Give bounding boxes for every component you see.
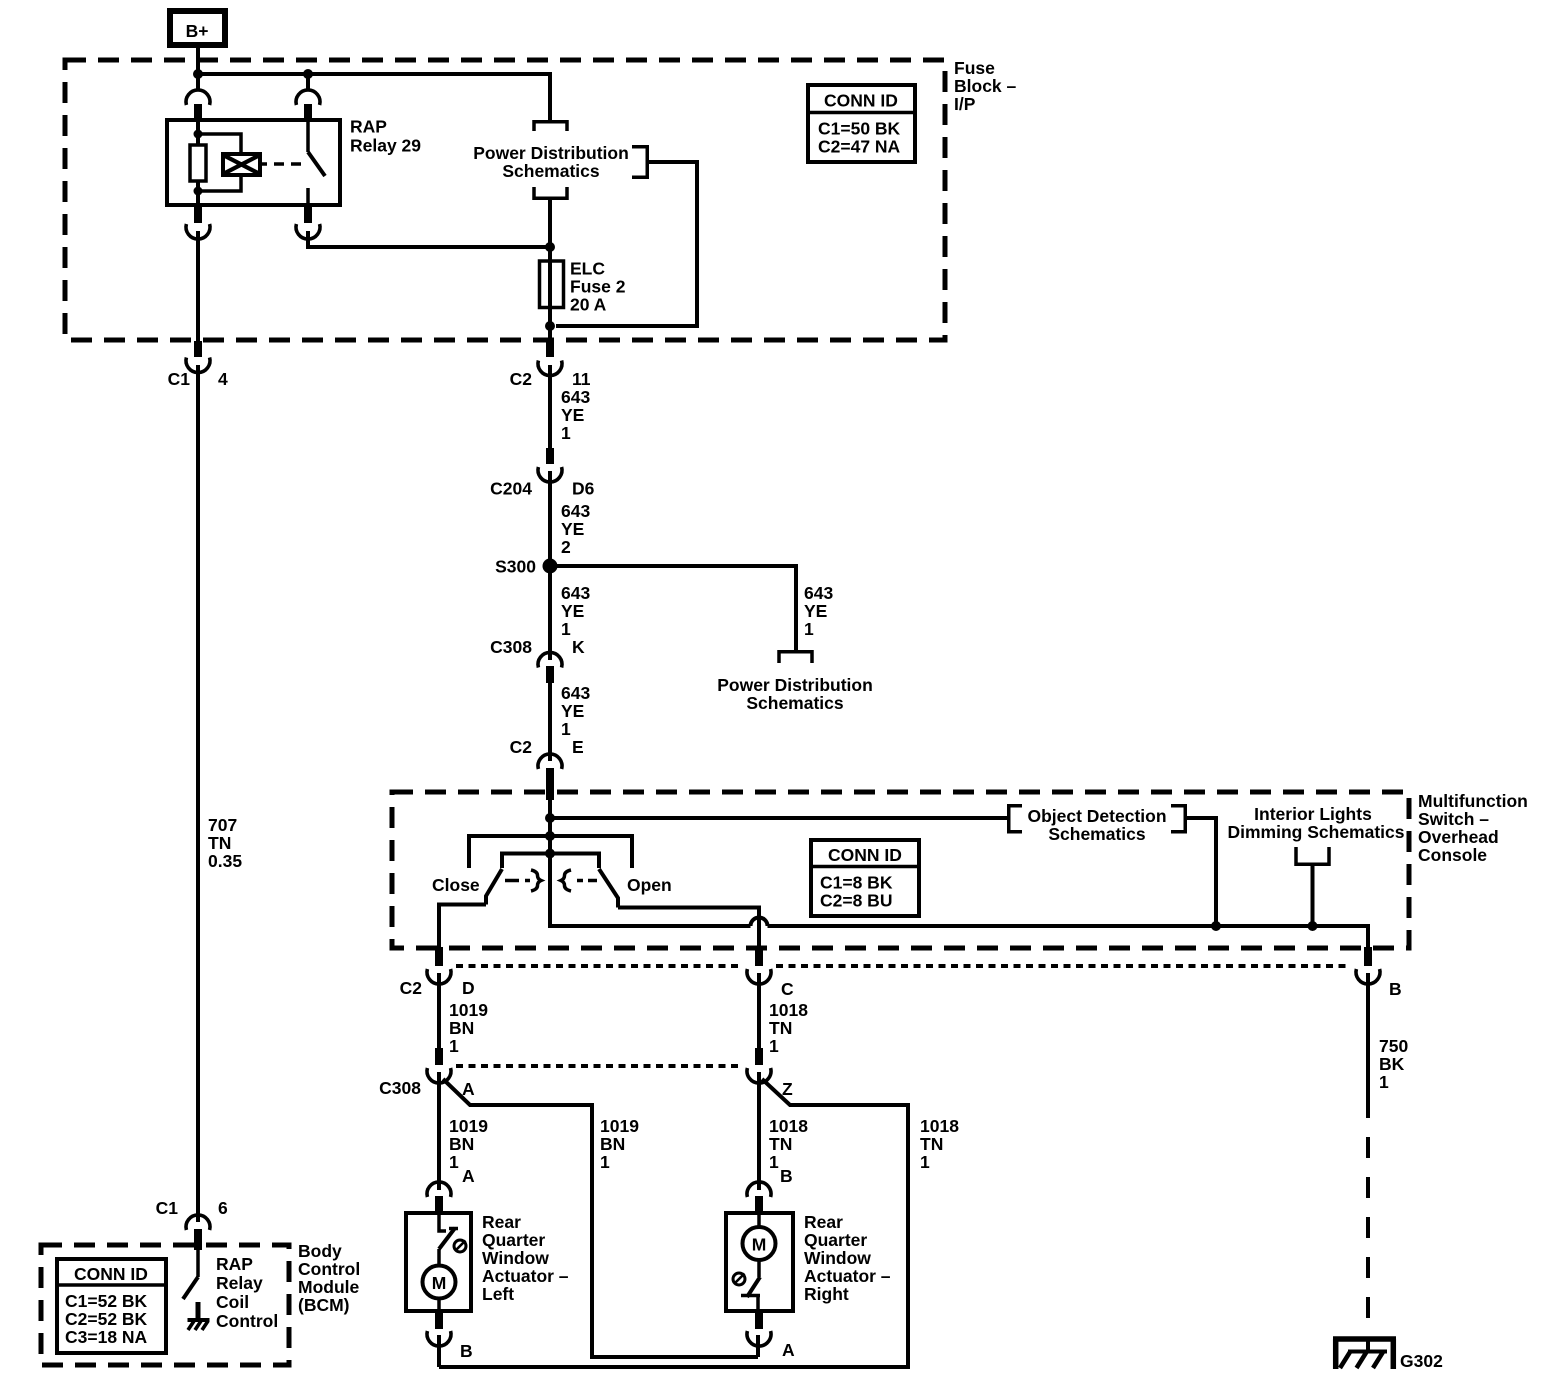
svg-text:750: 750 <box>1379 1036 1408 1056</box>
svg-text:RAP: RAP <box>216 1254 253 1274</box>
svg-text:4: 4 <box>218 369 228 389</box>
wire 1019 BN 1 branch (to actuator right A) <box>443 1079 758 1357</box>
connector C204 pin D6 <box>490 448 594 499</box>
relay switch blade <box>308 152 325 176</box>
svg-text:C2: C2 <box>510 737 533 757</box>
svg-text:C3=18 NA: C3=18 NA <box>65 1327 148 1347</box>
svg-text:BK: BK <box>1379 1054 1405 1074</box>
svg-text:YE: YE <box>561 405 584 425</box>
wire 643 YE 1 (C308 to C2 E) <box>550 677 590 761</box>
wire: interior lights drop <box>1311 864 1315 926</box>
svg-text:BN: BN <box>600 1134 625 1154</box>
svg-text:K: K <box>572 637 585 657</box>
connector C2 pin B <box>1356 947 1402 999</box>
svg-text:I/P: I/P <box>954 94 976 114</box>
svg-text:Coil: Coil <box>216 1292 249 1312</box>
svg-text:C1=50 BK: C1=50 BK <box>818 119 901 139</box>
svg-text:BN: BN <box>449 1134 474 1154</box>
wire: bus to switch pin <box>306 74 310 91</box>
svg-text:A: A <box>462 1079 475 1099</box>
junction: inner contacts feed <box>545 849 555 859</box>
svg-text:S300: S300 <box>495 557 536 577</box>
svg-text:1: 1 <box>769 1152 779 1172</box>
svg-text:Relay: Relay <box>216 1273 263 1293</box>
svg-text:YE: YE <box>804 601 827 621</box>
connector: relay switch output pin <box>296 205 320 239</box>
wire 643 YE 1 (S300 to C308) <box>550 566 590 660</box>
svg-text:Window: Window <box>804 1248 871 1268</box>
svg-text:Rear: Rear <box>804 1212 843 1232</box>
svg-text:B+: B+ <box>186 21 209 41</box>
svg-text:1018: 1018 <box>769 1000 808 1020</box>
connector C2 pin D <box>400 947 475 998</box>
svg-text:Interior Lights: Interior Lights <box>1254 804 1372 824</box>
svg-text:Fuse: Fuse <box>954 58 995 78</box>
svg-text:Actuator –: Actuator – <box>482 1266 569 1286</box>
svg-text:20 A: 20 A <box>570 295 607 315</box>
svg-text:Z: Z <box>782 1079 793 1099</box>
relay actuation linkage (dashed) <box>260 162 301 166</box>
off-page reference: Power Distribution Schematics (battery feed) <box>473 122 647 199</box>
ground G302 <box>1333 1337 1443 1371</box>
svg-text:Body: Body <box>298 1241 342 1261</box>
svg-text:1: 1 <box>804 619 814 639</box>
svg-text:1: 1 <box>449 1036 459 1056</box>
svg-text:1: 1 <box>561 423 571 443</box>
svg-text:E: E <box>572 737 584 757</box>
svg-text:ELC: ELC <box>570 259 605 279</box>
svg-text:Open: Open <box>627 875 672 895</box>
svg-text:1: 1 <box>561 719 571 739</box>
svg-text:C308: C308 <box>490 637 532 657</box>
svg-text:0.35: 0.35 <box>208 851 242 871</box>
svg-text:1019: 1019 <box>449 1116 488 1136</box>
wire 643 YE 1 branch to power distribution <box>550 566 833 652</box>
switch linkage (dashed with arrows) <box>505 870 597 891</box>
wire 1018 TN 1 (C308 Z to actuator right B) <box>759 1072 808 1190</box>
wire: switch output to fuse <box>308 231 550 247</box>
svg-text:643: 643 <box>561 683 590 703</box>
wire: through ELC fuse <box>548 199 552 341</box>
junction: outer contacts feed <box>545 831 555 841</box>
BCM label <box>298 1241 360 1315</box>
svg-text:Block –: Block – <box>954 76 1017 96</box>
wire: battery bus <box>198 74 550 121</box>
svg-text:Control: Control <box>298 1259 360 1279</box>
svg-text:1019: 1019 <box>600 1116 639 1136</box>
junction at switch branch <box>303 69 313 79</box>
junction: object detection return <box>1211 921 1221 931</box>
svg-text:TN: TN <box>769 1018 792 1038</box>
svg-text:RAP: RAP <box>350 117 387 137</box>
svg-text:C204: C204 <box>490 479 532 499</box>
junction at fuse bottom <box>545 321 555 331</box>
svg-text:M: M <box>752 1235 767 1255</box>
relay switch lower contact <box>306 188 310 205</box>
svg-text:A: A <box>462 1166 475 1186</box>
junction at coil branch <box>193 69 203 79</box>
wire: relay coil low side down to C1 <box>196 231 200 341</box>
connector: relay coil supply pin <box>186 90 210 121</box>
svg-text:1: 1 <box>1379 1072 1389 1092</box>
svg-text:1018: 1018 <box>920 1116 959 1136</box>
svg-text:Schematics: Schematics <box>746 693 844 713</box>
svg-text:D6: D6 <box>572 479 595 499</box>
svg-text:2: 2 <box>561 537 571 557</box>
ground (BCM internal) <box>188 1302 210 1330</box>
svg-text:Relay 29: Relay 29 <box>350 136 421 156</box>
svg-text:(BCM): (BCM) <box>298 1295 350 1315</box>
svg-text:707: 707 <box>208 815 237 835</box>
wire 707 TN 0.35 (C1 4 to BCM) <box>198 365 242 1222</box>
svg-text:Dimming Schematics: Dimming Schematics <box>1228 822 1405 842</box>
wire: actuator left B down <box>437 1335 441 1367</box>
svg-text:Actuator –: Actuator – <box>804 1266 891 1286</box>
CONN ID table (fuse block) <box>808 85 915 162</box>
junction at fuse top <box>545 242 555 252</box>
relay RAP Relay 29 body <box>167 120 340 205</box>
off-page reference: Object Detection Schematics <box>1009 806 1186 844</box>
relay label <box>350 117 421 156</box>
svg-text:6: 6 <box>218 1198 228 1218</box>
junction: interior lights <box>1308 921 1318 931</box>
svg-text:Switch –: Switch – <box>1418 809 1489 829</box>
rear quarter window actuator left <box>406 1212 569 1311</box>
relay coil leg wires <box>196 121 200 205</box>
wire 1019 BN 1 (C308 A to actuator left A) <box>439 1072 488 1190</box>
connector C2 pin E (overhead console) <box>510 737 584 800</box>
switch blade Close <box>486 869 502 905</box>
svg-text:C2=52 BK: C2=52 BK <box>65 1309 148 1329</box>
svg-text:1: 1 <box>561 619 571 639</box>
relay coil element <box>223 154 260 175</box>
junction relay coil top <box>194 130 203 139</box>
svg-text:Power Distribution: Power Distribution <box>473 143 629 163</box>
svg-text:C: C <box>781 979 794 999</box>
connector: relay switch supply pin <box>296 90 320 121</box>
connector: actuator right pin B <box>747 1166 793 1214</box>
svg-text:Close: Close <box>432 875 480 895</box>
svg-text:11: 11 <box>572 369 591 389</box>
connector: actuator left pin B <box>427 1312 473 1361</box>
svg-text:B: B <box>1389 979 1402 999</box>
connector row dotted line (C2 overhead console) <box>456 964 1351 968</box>
wire: feed to object detection <box>550 816 1008 820</box>
BCM boundary <box>41 1245 289 1365</box>
rear quarter window actuator right <box>726 1212 891 1311</box>
splice S300 <box>495 557 557 577</box>
wire 1018 TN 1 (C2 C to C308 Z) <box>759 973 808 1056</box>
connector C1 pin 6 (BCM) <box>156 1198 228 1250</box>
wire: coil parallel branch <box>198 134 241 191</box>
svg-text:643: 643 <box>804 583 833 603</box>
svg-text:1018: 1018 <box>769 1116 808 1136</box>
junction: object detection feed <box>545 813 555 823</box>
svg-text:643: 643 <box>561 501 590 521</box>
svg-text:Quarter: Quarter <box>482 1230 545 1250</box>
wire: bus to coil pin <box>196 74 200 91</box>
off-page reference: Power Distribution Schematics (S300 branch) <box>717 652 873 713</box>
wire: B+ drop <box>196 45 200 74</box>
svg-text:Control: Control <box>216 1311 278 1331</box>
svg-text:Left: Left <box>482 1284 514 1304</box>
connector C308 pin K <box>490 637 585 683</box>
svg-text:C1=52 BK: C1=52 BK <box>65 1291 148 1311</box>
svg-text:Rear: Rear <box>482 1212 521 1232</box>
connector: actuator left pin A <box>427 1166 475 1214</box>
connector C1 pin 4 (fuse block) <box>168 341 228 389</box>
wire 750 BK 1 (to ground) <box>1368 973 1408 1118</box>
CONN ID table (BCM) <box>57 1259 166 1353</box>
battery positive B+ <box>170 11 225 45</box>
svg-text:Module: Module <box>298 1277 360 1297</box>
svg-text:D: D <box>462 978 475 998</box>
svg-text:YE: YE <box>561 519 584 539</box>
connector C2 pin 11 (fuse block) <box>510 341 591 389</box>
svg-text:1: 1 <box>920 1152 930 1172</box>
wire: off-page loop to fuse bottom <box>556 162 697 326</box>
connector: actuator right pin A <box>747 1312 795 1360</box>
svg-text:YE: YE <box>561 601 584 621</box>
svg-text:C2=8 BU: C2=8 BU <box>820 891 892 911</box>
svg-text:Overhead: Overhead <box>1418 827 1499 847</box>
svg-text:TN: TN <box>208 833 231 853</box>
svg-text:1: 1 <box>769 1036 779 1056</box>
connector: relay coil output pin <box>186 205 210 239</box>
svg-text:Multifunction: Multifunction <box>1418 791 1528 811</box>
svg-text:1: 1 <box>600 1152 610 1172</box>
svg-text:Console: Console <box>1418 845 1487 865</box>
svg-text:CONN ID: CONN ID <box>824 91 898 111</box>
svg-text:B: B <box>460 1341 473 1361</box>
wire crossover hump <box>751 918 768 927</box>
wire 643 YE 2 (C204 to S300) <box>550 471 590 566</box>
svg-text:Power Distribution: Power Distribution <box>717 675 873 695</box>
svg-text:TN: TN <box>920 1134 943 1154</box>
svg-text:C308: C308 <box>379 1078 421 1098</box>
wire: switch feed <box>548 800 552 855</box>
wire: object detection return <box>1185 818 1216 926</box>
wire: ground lead (dashed) <box>1366 1118 1370 1337</box>
fuse ELC Fuse 2 20 A <box>540 259 626 315</box>
CONN ID table (overhead console) <box>811 840 919 916</box>
svg-text:BN: BN <box>449 1018 474 1038</box>
fuse block label <box>954 58 1017 114</box>
svg-text:C1=8 BK: C1=8 BK <box>820 873 893 893</box>
svg-text:YE: YE <box>561 701 584 721</box>
wire 643 YE 1 (fuse to C204) <box>550 365 590 449</box>
svg-text:C2=47 NA: C2=47 NA <box>818 137 901 157</box>
svg-text:Object Detection: Object Detection <box>1027 806 1166 826</box>
wire 1019 BN 1 (C2 D to C308 A) <box>439 973 488 1056</box>
svg-text:C2: C2 <box>510 369 533 389</box>
multifunction switch boundary (overhead console) <box>392 792 1409 948</box>
svg-text:1019: 1019 <box>449 1000 488 1020</box>
svg-text:1: 1 <box>449 1152 459 1172</box>
svg-text:Right: Right <box>804 1284 849 1304</box>
svg-text:Window: Window <box>482 1248 549 1268</box>
svg-text:Schematics: Schematics <box>502 161 600 181</box>
wire: close output <box>439 905 486 949</box>
svg-text:M: M <box>432 1273 447 1293</box>
wire: actuator right A down <box>756 1335 760 1357</box>
junction relay coil bottom <box>194 187 203 196</box>
RAP relay coil control switch (BCM driver) <box>183 1250 278 1331</box>
svg-text:C1: C1 <box>156 1198 179 1218</box>
off-page reference: Interior Lights Dimming Schematics <box>1228 804 1405 864</box>
wire: outer contact bar <box>469 836 632 868</box>
svg-text:Schematics: Schematics <box>1048 824 1146 844</box>
connector C308 pin A <box>379 1048 475 1099</box>
svg-text:G302: G302 <box>1400 1351 1443 1371</box>
switch blade Open <box>599 869 618 908</box>
svg-text:TN: TN <box>769 1134 792 1154</box>
svg-text:CONN ID: CONN ID <box>828 845 902 865</box>
svg-text:B: B <box>780 1166 793 1186</box>
resistor (relay suppression) <box>190 145 206 181</box>
relay switch contact <box>306 121 310 152</box>
svg-text:C2: C2 <box>400 978 423 998</box>
svg-text:Fuse 2: Fuse 2 <box>570 277 626 297</box>
connector C2 pin C <box>747 947 794 999</box>
wire 1018 TN 1 branch (to actuator left B) <box>439 1079 959 1367</box>
svg-text:643: 643 <box>561 583 590 603</box>
svg-text:Quarter: Quarter <box>804 1230 867 1250</box>
svg-text:A: A <box>782 1340 795 1360</box>
connector C308 pin Z <box>747 1048 793 1099</box>
fuse block boundary <box>65 60 945 340</box>
svg-text:C1: C1 <box>168 369 191 389</box>
svg-text:CONN ID: CONN ID <box>74 1264 148 1284</box>
multifunction switch label <box>1418 791 1528 865</box>
wire: open output <box>618 908 759 949</box>
connector row dotted line (C308) <box>456 1064 742 1068</box>
svg-text:643: 643 <box>561 387 590 407</box>
wire: inner contact bar <box>502 854 599 869</box>
wire: switch common bus to B <box>550 854 1368 948</box>
